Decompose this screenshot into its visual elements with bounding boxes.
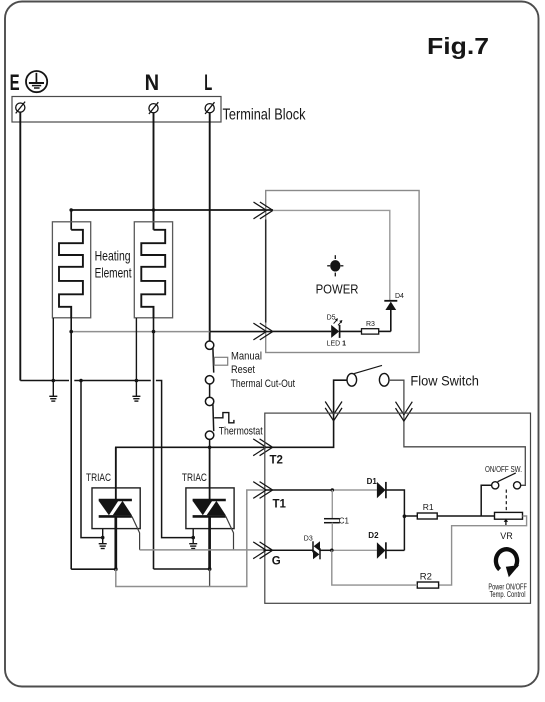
svg-text:Fig.7: Fig.7 (427, 33, 489, 59)
node bus2-left (69, 330, 73, 334)
resistor R3 (362, 329, 379, 334)
svg-text:ON/OFF SW.: ON/OFF SW. (485, 464, 522, 474)
wire earth to triac1 tab (81, 381, 103, 538)
node triac1 tab (101, 536, 105, 540)
control board box (265, 413, 531, 603)
connector chevron flow-in (325, 402, 342, 421)
connector chevron flow-out (396, 402, 413, 421)
svg-text:Thermostat: Thermostat (219, 426, 263, 438)
svg-text:N: N (145, 70, 160, 95)
triac 1 (92, 447, 140, 569)
svg-text:D2: D2 (368, 531, 379, 540)
node G-C1 (330, 549, 334, 553)
wire POWER top run (273, 210, 390, 300)
ground 2 (132, 381, 140, 402)
node T2-thermostat (208, 446, 212, 450)
wire cutout to thermostat (209, 384, 211, 397)
wire T2 bus (116, 380, 347, 500)
resistor R2 (417, 582, 438, 588)
thermostat terminal 1 (205, 397, 213, 405)
connector chevron T1 (253, 482, 272, 499)
wire element2 to triac2 T1 (154, 568, 210, 570)
resistor R1 (417, 513, 437, 519)
ground 1 (49, 381, 57, 402)
thermostat terminal 2 (205, 431, 213, 439)
svg-text:POWER: POWER (316, 282, 359, 297)
earth bus (20, 381, 193, 538)
svg-text:T1: T1 (273, 499, 287, 511)
thermal cutout terminal 1 (205, 341, 213, 349)
protective earth symbol (26, 71, 47, 92)
svg-text:Flow Switch: Flow Switch (410, 373, 479, 388)
label Manual Reset Thermal Cut-Out (231, 350, 296, 390)
connector chevron POWER in2 (253, 323, 272, 340)
node T1-C1 (331, 488, 335, 492)
wire VR link (439, 516, 527, 585)
triac 2 (186, 447, 234, 569)
svg-text:Reset: Reset (231, 364, 255, 376)
svg-text:L: L (204, 70, 212, 95)
svg-text:Manual: Manual (231, 350, 262, 362)
wire T1 input (265, 489, 333, 491)
node triac2 T1 (208, 567, 212, 571)
wire E down (19, 112, 21, 380)
terminal N (149, 102, 158, 114)
wire heater bottom bus gray (71, 331, 210, 333)
svg-text:R1: R1 (423, 502, 434, 512)
svg-text:D3: D3 (304, 536, 313, 543)
wire bus to POWER input 2 (210, 331, 273, 333)
diode D4 (384, 301, 397, 332)
wire node to D2 (332, 549, 377, 551)
wire R3 to D4 (379, 330, 391, 332)
node bus2-N (152, 330, 156, 334)
svg-text:TRIAC: TRIAC (86, 472, 111, 484)
capacitor C1 (324, 490, 340, 550)
terminal block (12, 97, 221, 123)
diode D1 (377, 482, 386, 498)
svg-text:R3: R3 (366, 321, 375, 328)
heating element 1 body (52, 222, 90, 318)
svg-text:Temp. Control: Temp. Control (490, 590, 526, 599)
connector chevron POWER in1 (254, 202, 273, 219)
node earth-gnd2 (135, 379, 139, 383)
wire L down (209, 113, 211, 341)
svg-text:Terminal Block: Terminal Block (223, 106, 307, 123)
wire element1 sheath (52, 318, 54, 381)
manual reset button (214, 357, 227, 365)
svg-text:VR: VR (500, 531, 513, 541)
wire triac1 tab stub (102, 529, 104, 538)
VR wiper arrow (504, 519, 508, 526)
label Heating Element (95, 247, 132, 280)
wire element1 lead down (70, 318, 72, 569)
wire D2 to junction (386, 549, 405, 551)
wire POWER bottom run (273, 330, 332, 332)
wire element2 sheath (135, 318, 137, 381)
POWER board box (266, 191, 419, 353)
wire D3 to node (320, 549, 332, 551)
flow switch (347, 365, 389, 386)
POWER board left edge dark (265, 220, 267, 323)
potentiometer VR (495, 512, 523, 519)
wire T1 to D1 (332, 489, 377, 491)
diode D2 (377, 542, 386, 558)
node triac2 tab (191, 536, 195, 540)
node earth-gnd1 (52, 379, 56, 383)
node bus1-left (69, 208, 73, 212)
thermostat lever (212, 404, 215, 431)
node D1-D2-R1 (403, 514, 407, 518)
ground triac2 (189, 538, 197, 549)
wire element2 lead down (153, 318, 155, 569)
wire triac2 T1 drop (209, 569, 211, 587)
node triac1 T1 (114, 567, 118, 571)
svg-text:T2: T2 (270, 455, 283, 467)
connector chevron T2 (253, 439, 272, 456)
node earth-triac1 (79, 379, 83, 383)
svg-text:D4: D4 (395, 293, 404, 300)
thermostat actuator (214, 413, 234, 423)
svg-text:D5: D5 (327, 315, 336, 322)
heating element 2 coil (141, 230, 165, 318)
wire thermostat to T2 bus (209, 439, 211, 447)
rotation symbol (496, 549, 519, 577)
wire onoff drop (481, 485, 491, 516)
thermal cutout terminal 2 (205, 376, 213, 384)
svg-text:R2: R2 (420, 572, 432, 583)
coupling dashes (505, 490, 507, 512)
svg-text:Thermal Cut-Out: Thermal Cut-Out (231, 378, 296, 390)
svg-text:Element: Element (95, 265, 132, 281)
switch ON/OFF (492, 473, 521, 489)
terminal L (205, 102, 214, 114)
connector chevron G (253, 542, 272, 559)
wire N down (153, 113, 155, 230)
wire live bus to POWER input 1 (71, 210, 273, 230)
wire D1 to junction (386, 490, 405, 550)
wire LED to R3 (340, 330, 362, 332)
diac D3 (313, 541, 320, 559)
wire junction to R1 (404, 515, 417, 517)
thermal cutout lever (212, 348, 215, 373)
node bus1-N (152, 208, 156, 212)
svg-text:G: G (272, 556, 281, 568)
wire triac2 tab stub (192, 529, 194, 538)
wire R1 to VR (437, 515, 494, 517)
svg-text:Heating: Heating (95, 247, 131, 263)
svg-text:E: E (10, 70, 20, 95)
terminal E (16, 102, 25, 114)
ground triac1 (99, 538, 107, 549)
wire T1 return to board (116, 490, 266, 587)
svg-text:TRIAC: TRIAC (182, 472, 207, 484)
wire R2 to G node (332, 550, 418, 585)
svg-text:C1: C1 (339, 517, 350, 526)
heating element 1 coil (59, 230, 83, 318)
svg-text:LED 1: LED 1 (327, 341, 347, 348)
lamp indicator (327, 255, 343, 276)
LED D5 (331, 318, 342, 338)
wire element1 to triac1 T1 (71, 568, 116, 570)
heating element 2 body (134, 222, 172, 318)
svg-text:D1: D1 (367, 477, 378, 486)
wire flow switch return (389, 380, 525, 485)
wire G input (263, 549, 312, 551)
wire gate bus (140, 549, 264, 551)
